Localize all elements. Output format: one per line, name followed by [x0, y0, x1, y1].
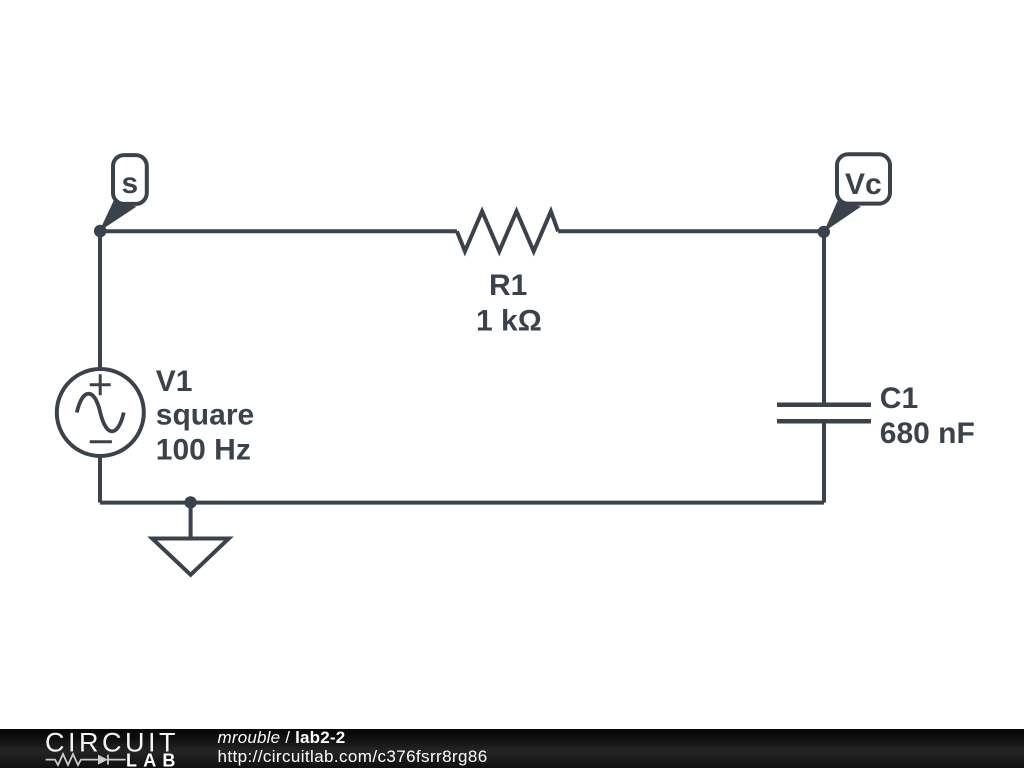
svg-text:R1: R1 — [489, 269, 527, 302]
wire bottom rail — [100, 501, 824, 505]
ground stub wire — [189, 503, 193, 539]
footer bar — [0, 729, 1024, 768]
V1 sine wave — [77, 394, 124, 432]
node junction dot Vc — [818, 226, 830, 238]
V1 plus sign — [90, 374, 111, 395]
ground symbol triangle — [152, 539, 229, 575]
node junction dot ground — [184, 496, 196, 508]
node junction dot s — [94, 225, 107, 238]
svg-text:mrouble / lab2-2: mrouble / lab2-2 — [218, 729, 346, 747]
node s pointer — [99, 200, 136, 231]
node Vc pointer — [824, 200, 861, 232]
svg-text:LAB: LAB — [126, 750, 182, 768]
svg-text:V1: V1 — [156, 365, 193, 398]
svg-text:Vc: Vc — [845, 168, 882, 201]
svg-text:http://circuitlab.com/c376fsrr: http://circuitlab.com/c376fsrr8rg86 — [218, 747, 488, 766]
svg-text:100 Hz: 100 Hz — [156, 434, 251, 467]
CircuitLab logo resistor-diode glyph — [46, 754, 126, 765]
resistor R1 — [457, 211, 558, 251]
svg-text:C1: C1 — [880, 382, 918, 415]
wire right vertical lower — [822, 421, 826, 502]
wire left vertical lower — [98, 456, 102, 503]
V1 minus sign — [90, 440, 112, 443]
node Vc bubble — [837, 154, 890, 203]
wire top-left rail — [100, 229, 457, 233]
voltage source V1 circle — [57, 369, 144, 456]
capacitor C1 plates — [777, 405, 871, 422]
svg-text:680 nF: 680 nF — [880, 417, 975, 450]
wire left vertical upper — [98, 231, 102, 369]
svg-text:1 kΩ: 1 kΩ — [476, 304, 542, 337]
svg-text:square: square — [156, 399, 254, 432]
svg-text:s: s — [122, 167, 139, 200]
wire top-right rail — [558, 229, 824, 233]
wire right vertical upper — [822, 231, 826, 404]
node s bubble — [113, 155, 147, 204]
